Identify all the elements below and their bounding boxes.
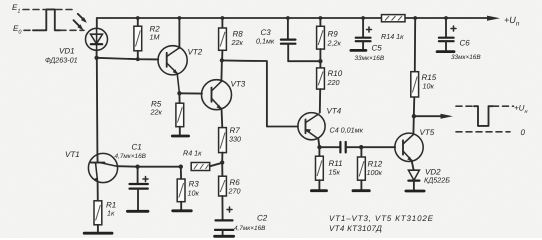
svg-text:VT2: VT2 (188, 48, 203, 57)
resistor R14 horizontal (382, 15, 406, 22)
capacitor C5 electrolytic (356, 18, 372, 50)
transistor VT4 (298, 113, 325, 140)
resistor R15 (411, 18, 419, 97)
wire C1 node to R3 node (138, 166, 181, 168)
svg-text:R10: R10 (328, 69, 343, 78)
resistor R3 (177, 167, 185, 211)
wire top supply rail (97, 17, 488, 19)
svg-text:VD1: VD1 (59, 47, 75, 56)
svg-text:33мк×16В: 33мк×16В (451, 54, 481, 61)
svg-text:VT1–VT3, VT5 КТ3102Е: VT1–VT3, VT5 КТ3102Е (329, 214, 434, 223)
svg-text:0: 0 (521, 128, 526, 137)
label R6 270 (228, 178, 241, 196)
ground below R11 (311, 189, 326, 192)
svg-text:100к: 100к (367, 168, 383, 177)
label R11 15k (329, 159, 343, 177)
label C6 33mk (451, 39, 481, 62)
resistor R9 (317, 18, 325, 61)
resistor R12 (358, 147, 366, 190)
label R8 22k (231, 30, 244, 48)
ground below C2 (215, 235, 234, 238)
wire VT1 emitter to C1 node (117, 165, 138, 168)
label C2 4.7mk (234, 214, 268, 233)
transistor VT3 (202, 80, 232, 110)
svg-text:22к: 22к (231, 38, 244, 47)
resistor R4 horizontal (191, 163, 222, 171)
svg-text:2,2к: 2,2к (327, 39, 342, 48)
resistor R2 (134, 18, 142, 59)
svg-text:330: 330 (229, 135, 241, 144)
node output branch (412, 114, 416, 118)
capacitor C3 (281, 18, 321, 61)
ground below C6 (437, 50, 454, 53)
svg-text:VT4: VT4 (327, 107, 342, 116)
wire VD1 node down to VT1 (96, 58, 99, 154)
svg-text:22к: 22к (150, 108, 163, 117)
wire VD1 node to VT2 base (97, 58, 159, 60)
transistor VT1 (88, 153, 117, 182)
svg-text:C6: C6 (460, 39, 471, 48)
svg-text:R14 1к: R14 1к (381, 32, 404, 41)
svg-text:10к: 10к (188, 189, 200, 198)
label R5 22k (150, 100, 163, 117)
svg-text:C4 0,01мк: C4 0,01мк (330, 126, 364, 135)
svg-text:C5: C5 (372, 44, 383, 53)
node VT4 emitter (317, 145, 321, 149)
svg-text:R4 1к: R4 1к (183, 149, 202, 158)
node R7 R6 R4 (220, 160, 224, 164)
resistor R1 (94, 182, 102, 233)
label R7 330 (229, 126, 241, 144)
light arrow 2 into VD1 (74, 20, 84, 30)
capacitor C4 (320, 142, 362, 152)
svg-text:VT1: VT1 (65, 150, 80, 159)
svg-text:270: 270 (228, 187, 241, 196)
transistor VT5 (395, 133, 423, 161)
label R1 1k (106, 201, 116, 218)
resistor R5 (176, 93, 184, 135)
wire output arrow (414, 114, 453, 119)
wire VT2 collector to rail (178, 18, 180, 48)
capacitor C1 electrolytic (130, 167, 149, 211)
input waveform E0 level (13, 24, 84, 36)
wire VT3 collector to R8 (220, 60, 223, 81)
wire emitter node to VT3 base (179, 92, 202, 94)
svg-text:220: 220 (327, 78, 340, 87)
ground below R1 (84, 232, 112, 235)
transistor VT2 (158, 46, 187, 94)
node C1 top (135, 165, 139, 169)
output waveform pulse (474, 106, 493, 126)
label C5 33mk (355, 44, 385, 63)
label R12 100k (367, 160, 383, 178)
svg-text:1М: 1М (150, 33, 160, 42)
capacitor C2 electrolytic (215, 207, 233, 236)
label R9 2.2k (327, 30, 342, 48)
wire VT4 emitter down (318, 139, 319, 147)
resistor R7 (219, 128, 227, 163)
label VD1 (45, 47, 78, 65)
wire C4 to VT5 base (361, 146, 395, 148)
photodiode VD1 (86, 18, 108, 58)
wire VT5 collector to R15 (412, 97, 415, 134)
svg-text:КД522Б: КД522Б (424, 176, 450, 185)
svg-text:33мк×16В: 33мк×16В (355, 55, 385, 62)
label R2 1M (150, 25, 161, 42)
diode VD2 (408, 160, 419, 190)
label R3 10k (188, 180, 200, 198)
input waveform E1 level (12, 3, 73, 15)
svg-text:4,7мк×16В: 4,7мк×16В (115, 153, 147, 160)
resistor R6 (219, 163, 227, 221)
node VT2 emitter junction (177, 91, 181, 95)
ground below R3 (173, 209, 192, 212)
output waveform top level (456, 104, 527, 116)
ground below C1 (127, 210, 148, 213)
wire R8 node right and down to VT4 base (222, 60, 298, 126)
node below VD1 (94, 56, 98, 60)
capacitor C6 electrolytic (439, 18, 456, 51)
svg-text:C2: C2 (257, 214, 268, 223)
ground below R5 (172, 135, 188, 138)
node R3 R4 (179, 165, 183, 169)
label C1 4.7mk (115, 143, 147, 161)
label C3 0.1mk (256, 28, 275, 46)
resistor R11 (316, 147, 324, 190)
svg-text:1к: 1к (107, 209, 115, 218)
label R10 220 (327, 69, 343, 87)
wire VT3 emitter to R7 (221, 108, 224, 127)
resistor R10 (317, 61, 325, 112)
light arrow 1 into VD1 (78, 14, 87, 23)
svg-text:C1: C1 (132, 143, 142, 152)
resistor R8 (219, 18, 227, 60)
input waveform pulse (33, 9, 60, 30)
ground below VD2 (406, 190, 424, 193)
node R12 top (359, 145, 363, 149)
ground below R12 (353, 189, 369, 192)
svg-text:R9: R9 (328, 30, 339, 39)
svg-text:0,1мк: 0,1мк (256, 37, 275, 46)
label VD2 KD522B (424, 168, 450, 185)
svg-text:ФД263-01: ФД263-01 (45, 56, 78, 65)
svg-text:R3: R3 (189, 180, 200, 189)
node supply arrow +Up (487, 15, 520, 28)
svg-text:4,7мк×16В: 4,7мк×16В (234, 225, 266, 232)
output waveform zero level (456, 128, 526, 137)
svg-text:15к: 15к (329, 168, 341, 177)
label R15 10k (422, 73, 437, 91)
ground below C5 (351, 49, 366, 52)
svg-text:VT3: VT3 (231, 80, 246, 89)
svg-text:10к: 10к (423, 82, 435, 91)
svg-text:VT5: VT5 (420, 128, 435, 137)
svg-text:VT4 КТ3107Д: VT4 КТ3107Д (329, 224, 382, 233)
